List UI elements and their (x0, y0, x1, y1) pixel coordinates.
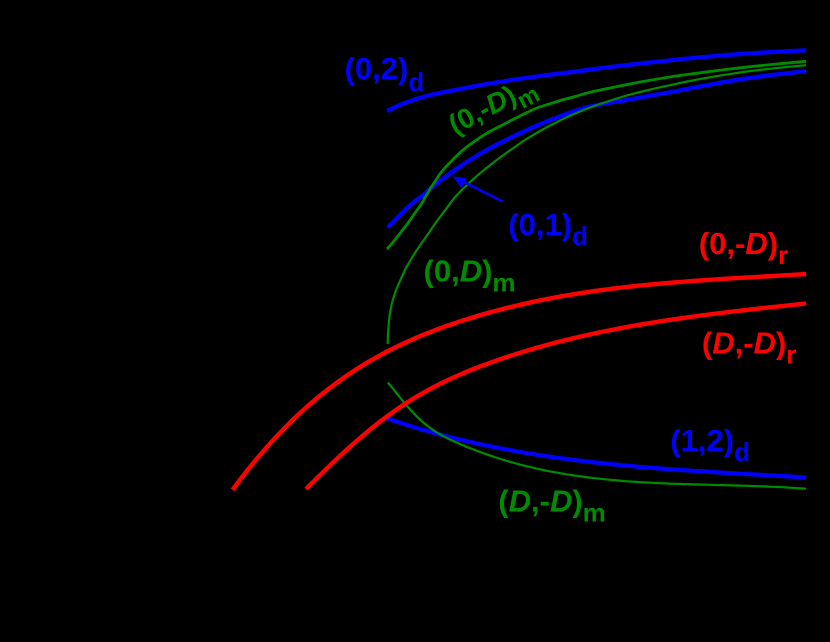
curve (0,-D)r repulsive state, red (233, 274, 807, 490)
curve (D,-D)m molecular state, green (388, 383, 806, 489)
curve (0,D)m molecular state, green (388, 65, 806, 344)
curve (D,-D)r repulsive state, red (306, 304, 806, 490)
curve (0,-D)m molecular state, green (387, 61, 806, 249)
curve (0,1)d dressed state, blue (388, 71, 806, 227)
arrow from (0,1)d label to blue curve (453, 176, 503, 201)
curve (1,2)d dressed state, blue (388, 419, 807, 478)
curve (0,2)d dressed state, blue (387, 50, 806, 111)
